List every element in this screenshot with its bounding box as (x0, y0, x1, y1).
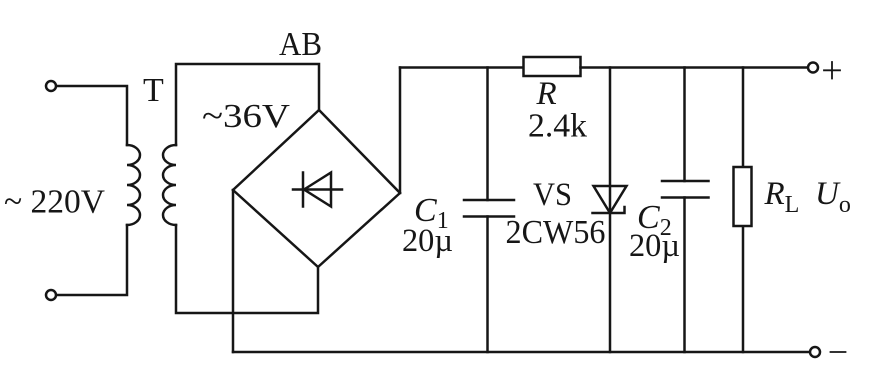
transformer T secondary winding (163, 145, 176, 225)
resistor R (524, 57, 581, 76)
wire primary bottom (57, 225, 128, 295)
wire branch C1 (486, 68, 489, 353)
load resistor RL (734, 167, 752, 226)
capacitor C1 plates (464, 200, 514, 217)
AC input terminal top (46, 81, 56, 91)
wire primary top (57, 86, 128, 145)
transformer T primary winding (127, 145, 140, 225)
top rail wire right of R (581, 66, 809, 69)
svg-text:2.4k: 2.4k (528, 108, 587, 145)
zener diode VS symbol (593, 186, 627, 213)
capacitor C2 plates (662, 181, 709, 198)
bottom rail wire (233, 351, 810, 354)
wire bridge negative output down (232, 190, 235, 352)
wire branch C2 (683, 68, 686, 353)
output terminal plus (808, 63, 818, 73)
bridge diode symbol (293, 173, 342, 207)
svg-text:Uo: Uo (815, 176, 851, 218)
wire secondary top to bridge AC node AB (176, 64, 319, 145)
top rail wire left of R (400, 66, 524, 69)
wire secondary bottom to bridge lower AC node (176, 225, 318, 313)
bridge rectifier diamond (233, 110, 400, 267)
svg-text:~36V: ~36V (202, 98, 291, 135)
AC input terminal bottom (46, 290, 56, 300)
plus sign (824, 62, 840, 79)
svg-text:20µ: 20µ (402, 223, 453, 259)
zener diode VS branch wire (609, 68, 612, 353)
svg-text:RL: RL (764, 176, 800, 218)
minus sign (831, 351, 846, 353)
svg-text:2CW56: 2CW56 (506, 214, 606, 251)
svg-text:VS: VS (533, 177, 572, 213)
svg-text:AB: AB (279, 26, 322, 63)
output terminal minus (810, 347, 820, 357)
wire branch RL (742, 68, 745, 353)
wire bridge positive output up (399, 68, 402, 194)
svg-text:~ 220V: ~ 220V (4, 184, 105, 221)
svg-text:20µ: 20µ (629, 228, 680, 264)
svg-text:T: T (143, 72, 164, 109)
